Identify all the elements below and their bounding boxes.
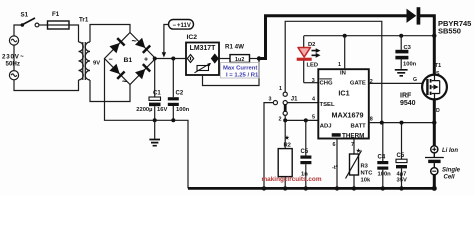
output diamond [211, 54, 218, 63]
wire: ground bus under bridge [105, 59, 189, 189]
svg-text:F1: F1 [52, 11, 60, 18]
resistor R1 [230, 55, 260, 64]
svg-text:C2: C2 [176, 91, 184, 97]
svg-text:ADJ: ADJ [320, 124, 332, 130]
capacitor C3 [395, 36, 416, 69]
svg-text:1: 1 [338, 62, 341, 68]
svg-text:IRF: IRF [400, 93, 412, 100]
AC source top circle [9, 36, 18, 45]
svg-text:R3: R3 [361, 163, 369, 169]
svg-text:Li Ion: Li Ion [442, 148, 458, 154]
svg-text:MAX1679: MAX1679 [332, 110, 364, 119]
svg-text:THERM: THERM [342, 132, 364, 139]
junction C1/gnd [153, 118, 157, 122]
svg-text:IC1: IC1 [338, 89, 349, 98]
node: R1 output junction [257, 56, 261, 60]
transistor T1 IRF9540 [422, 75, 447, 100]
svg-text:R2: R2 [284, 142, 291, 148]
wire switch to fuse [39, 24, 48, 26]
wire +11V arrow to rail [162, 25, 169, 58]
label Max Current box [221, 63, 260, 79]
junction BATT/J1 link + C4 [380, 121, 384, 125]
adj var symbol [195, 63, 211, 73]
node: J1 pin3 circle [273, 101, 277, 105]
svg-text:I = 1.25 / R1: I = 1.25 / R1 [226, 73, 259, 79]
capacitor C1 [136, 59, 167, 121]
wire: IN pin [344, 36, 346, 69]
wire: ADJ loop [203, 59, 260, 86]
svg-text:IN: IN [340, 71, 346, 77]
svg-text:R1 4W: R1 4W [225, 44, 244, 51]
primary coil [79, 42, 84, 80]
svg-text:2200µ: 2200µ [136, 107, 152, 113]
junction IN drop [343, 34, 347, 38]
wire: LED to CHG pin [304, 82, 319, 84]
svg-text:Single: Single [442, 167, 461, 173]
svg-text:−: − [173, 23, 177, 29]
diode bottom-right [135, 63, 151, 79]
junction C3 drop [399, 34, 403, 38]
svg-text:~: ~ [122, 77, 127, 87]
svg-text:+: + [144, 57, 148, 64]
svg-text:6: 6 [333, 142, 336, 148]
svg-text:16V: 16V [157, 107, 167, 113]
+11V label oval [169, 20, 194, 30]
IC U1 MAX1679 [318, 69, 369, 139]
junction ADJ row [283, 118, 287, 122]
wire: pin7 to R3 [353, 139, 355, 155]
wire fuse to transformer [69, 25, 79, 42]
ground symbol left [149, 120, 160, 145]
svg-text:8: 8 [370, 117, 373, 123]
svg-text:S1: S1 [21, 12, 29, 19]
junction C2/gnd [171, 118, 175, 122]
wire: secondary bottom to bridge [90, 80, 130, 102]
svg-text:S: S [436, 71, 440, 77]
capacitor C4 [377, 123, 391, 189]
battery Li-Ion [425, 146, 444, 175]
wire: between AC sources [13, 45, 15, 71]
svg-text:Tr1: Tr1 [79, 17, 89, 24]
transformer Tr1 [79, 42, 91, 80]
svg-text:10k: 10k [361, 177, 371, 183]
svg-text:−: − [109, 57, 113, 64]
ground symbol C3 [395, 70, 408, 76]
label 230V~ 50Hz [2, 54, 25, 68]
label PBYR745 SB550 [438, 19, 471, 36]
svg-text:100n: 100n [378, 171, 392, 177]
svg-text:100n: 100n [403, 62, 417, 68]
svg-text:C4: C4 [378, 155, 386, 161]
svg-text:3: 3 [269, 96, 272, 102]
svg-text:2: 2 [370, 79, 373, 85]
svg-text:C1: C1 [153, 91, 161, 97]
diode top-right [135, 38, 151, 54]
wire: TSEL row [287, 102, 318, 104]
svg-text:2: 2 [279, 116, 282, 122]
svg-text:C5: C5 [397, 153, 405, 159]
diode top-left [109, 37, 125, 53]
svg-text:LED: LED [307, 63, 319, 69]
capacitor C5 1n [300, 120, 311, 188]
svg-text:CHG: CHG [320, 81, 334, 87]
ground rail [188, 187, 434, 190]
svg-text:IC2: IC2 [187, 34, 198, 41]
AC source bottom circle [9, 71, 18, 80]
svg-text:5: 5 [312, 115, 315, 121]
svg-text:-t°: -t° [332, 165, 338, 171]
junction thick wire [432, 120, 436, 124]
svg-text:T1: T1 [435, 63, 443, 69]
svg-text:makingcircuits.com: makingcircuits.com [262, 176, 322, 183]
svg-text:LM317T: LM317T [190, 45, 216, 52]
capacitor C2 [168, 59, 190, 121]
svg-text:9540: 9540 [400, 100, 416, 107]
svg-text:100n: 100n [176, 107, 190, 113]
svg-text:Cell: Cell [444, 174, 455, 180]
svg-text:GATE: GATE [350, 81, 366, 87]
wire: LM317 out to R1 [219, 58, 230, 60]
wire: thick from diode to mosfet [420, 16, 434, 75]
diode bottom-left [109, 64, 125, 80]
resistor R2 [278, 120, 292, 188]
svg-text:50Hz: 50Hz [6, 60, 20, 67]
svg-text:35V: 35V [397, 177, 407, 183]
svg-text:B1: B1 [124, 57, 133, 64]
wire: thick charge line up and right [259, 16, 408, 59]
svg-text:G: G [413, 77, 417, 83]
diode D1 [407, 7, 421, 24]
svg-text:J1: J1 [291, 96, 298, 102]
svg-text:9V: 9V [93, 61, 100, 67]
LED D2 [297, 36, 321, 83]
svg-text:TSEL: TSEL [320, 102, 335, 108]
op-amp/regulator IC2 LM317T [186, 34, 219, 75]
junction bridge+/C1 [153, 57, 157, 61]
svg-text:C5: C5 [301, 149, 309, 155]
wire: AC top lead to switch [14, 25, 21, 36]
wire: primary bottom loop [14, 80, 79, 91]
core [83, 42, 86, 80]
capacitor C5 4u7 [396, 123, 407, 189]
bridge rectifier B1 [105, 33, 156, 87]
svg-text:C3: C3 [404, 45, 412, 51]
rail junctions [262, 186, 266, 190]
wire: secondary top to bridge [90, 25, 130, 43]
emission arrows [312, 51, 317, 56]
svg-text:4: 4 [312, 97, 315, 103]
wire: battery minus to rail [433, 175, 436, 189]
fuse F1 [48, 21, 70, 29]
connector J1 [269, 86, 299, 123]
svg-text:D2: D2 [308, 42, 315, 48]
wire: J1 pin1 to BATT link [285, 21, 382, 122]
svg-text:+11V: +11V [177, 23, 191, 29]
wire: GATE to mosfet [369, 82, 427, 84]
junction C5 drop [304, 118, 308, 122]
svg-text:~: ~ [132, 36, 137, 46]
thermistor R3 NTC [332, 148, 373, 189]
svg-text:1: 1 [279, 86, 282, 92]
svg-text:SB550: SB550 [438, 27, 461, 36]
junction at thick wire [432, 34, 436, 38]
svg-text:NTC: NTC [361, 170, 374, 176]
node: DC+ rail [155, 58, 186, 60]
input diamond [187, 55, 193, 63]
wire: J1 pin3 to ground [264, 103, 273, 189]
switch S1 [21, 18, 39, 27]
wire: battery+ node line y35.7 [304, 35, 434, 37]
label Single Cell [442, 167, 461, 180]
label IRF 9540 [400, 93, 416, 107]
secondary coil [85, 42, 90, 80]
wire: pin6 to rail [336, 139, 338, 189]
wire: jumper to ADJ row [285, 119, 318, 121]
svg-text:BATT: BATT [351, 124, 367, 130]
junction C5b drop [400, 121, 404, 125]
svg-text:Max Current: Max Current [223, 65, 257, 71]
junction C2 [171, 57, 175, 61]
wire: mosfet drain to battery [433, 99, 436, 145]
svg-text:4µ7: 4µ7 [397, 171, 407, 177]
wire: BATT row [369, 122, 435, 124]
svg-text:D: D [436, 108, 440, 114]
svg-text:3: 3 [312, 78, 315, 84]
